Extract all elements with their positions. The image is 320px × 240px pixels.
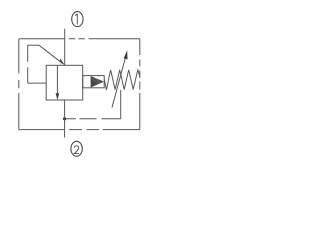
port 2 line xyxy=(64,100,66,138)
internal flow arrow shaft xyxy=(56,65,58,95)
enclosure bottom edge dashes xyxy=(69,129,99,131)
drain line vertical from spring xyxy=(120,90,122,119)
spring zigzag xyxy=(104,70,140,90)
port 1 line xyxy=(64,29,66,66)
check valve triangle xyxy=(91,76,104,87)
enclosure left edge xyxy=(18,39,20,130)
enclosure bottom edge solid right xyxy=(103,129,140,131)
main valve square xyxy=(46,65,82,100)
port 2 digit xyxy=(74,146,79,154)
internal flow arrow head xyxy=(56,93,60,100)
flow diagonal arrow head xyxy=(60,58,65,65)
pilot pentagon bottom edge xyxy=(28,82,47,84)
drain line dashes xyxy=(66,118,121,120)
pilot pentagon left edge dashed xyxy=(27,45,29,83)
drain junction dot xyxy=(63,117,66,120)
enclosure bottom edge solid left xyxy=(19,129,65,131)
port 2 label circle xyxy=(71,141,82,156)
enclosure right edge xyxy=(139,39,141,130)
check valve box xyxy=(83,76,105,88)
flow diagonal arrow shaft xyxy=(39,45,63,64)
adjustment arrow head xyxy=(124,50,128,59)
pilot pentagon top edge xyxy=(28,44,39,46)
adjustment arrow shaft xyxy=(112,58,125,108)
enclosure top edge solid right xyxy=(89,38,140,40)
check valve triangle hatch highlights xyxy=(93,78,101,85)
enclosure top edge solid left xyxy=(19,38,65,40)
port 1 label circle xyxy=(72,12,83,27)
enclosure top edge dashes xyxy=(69,38,85,40)
